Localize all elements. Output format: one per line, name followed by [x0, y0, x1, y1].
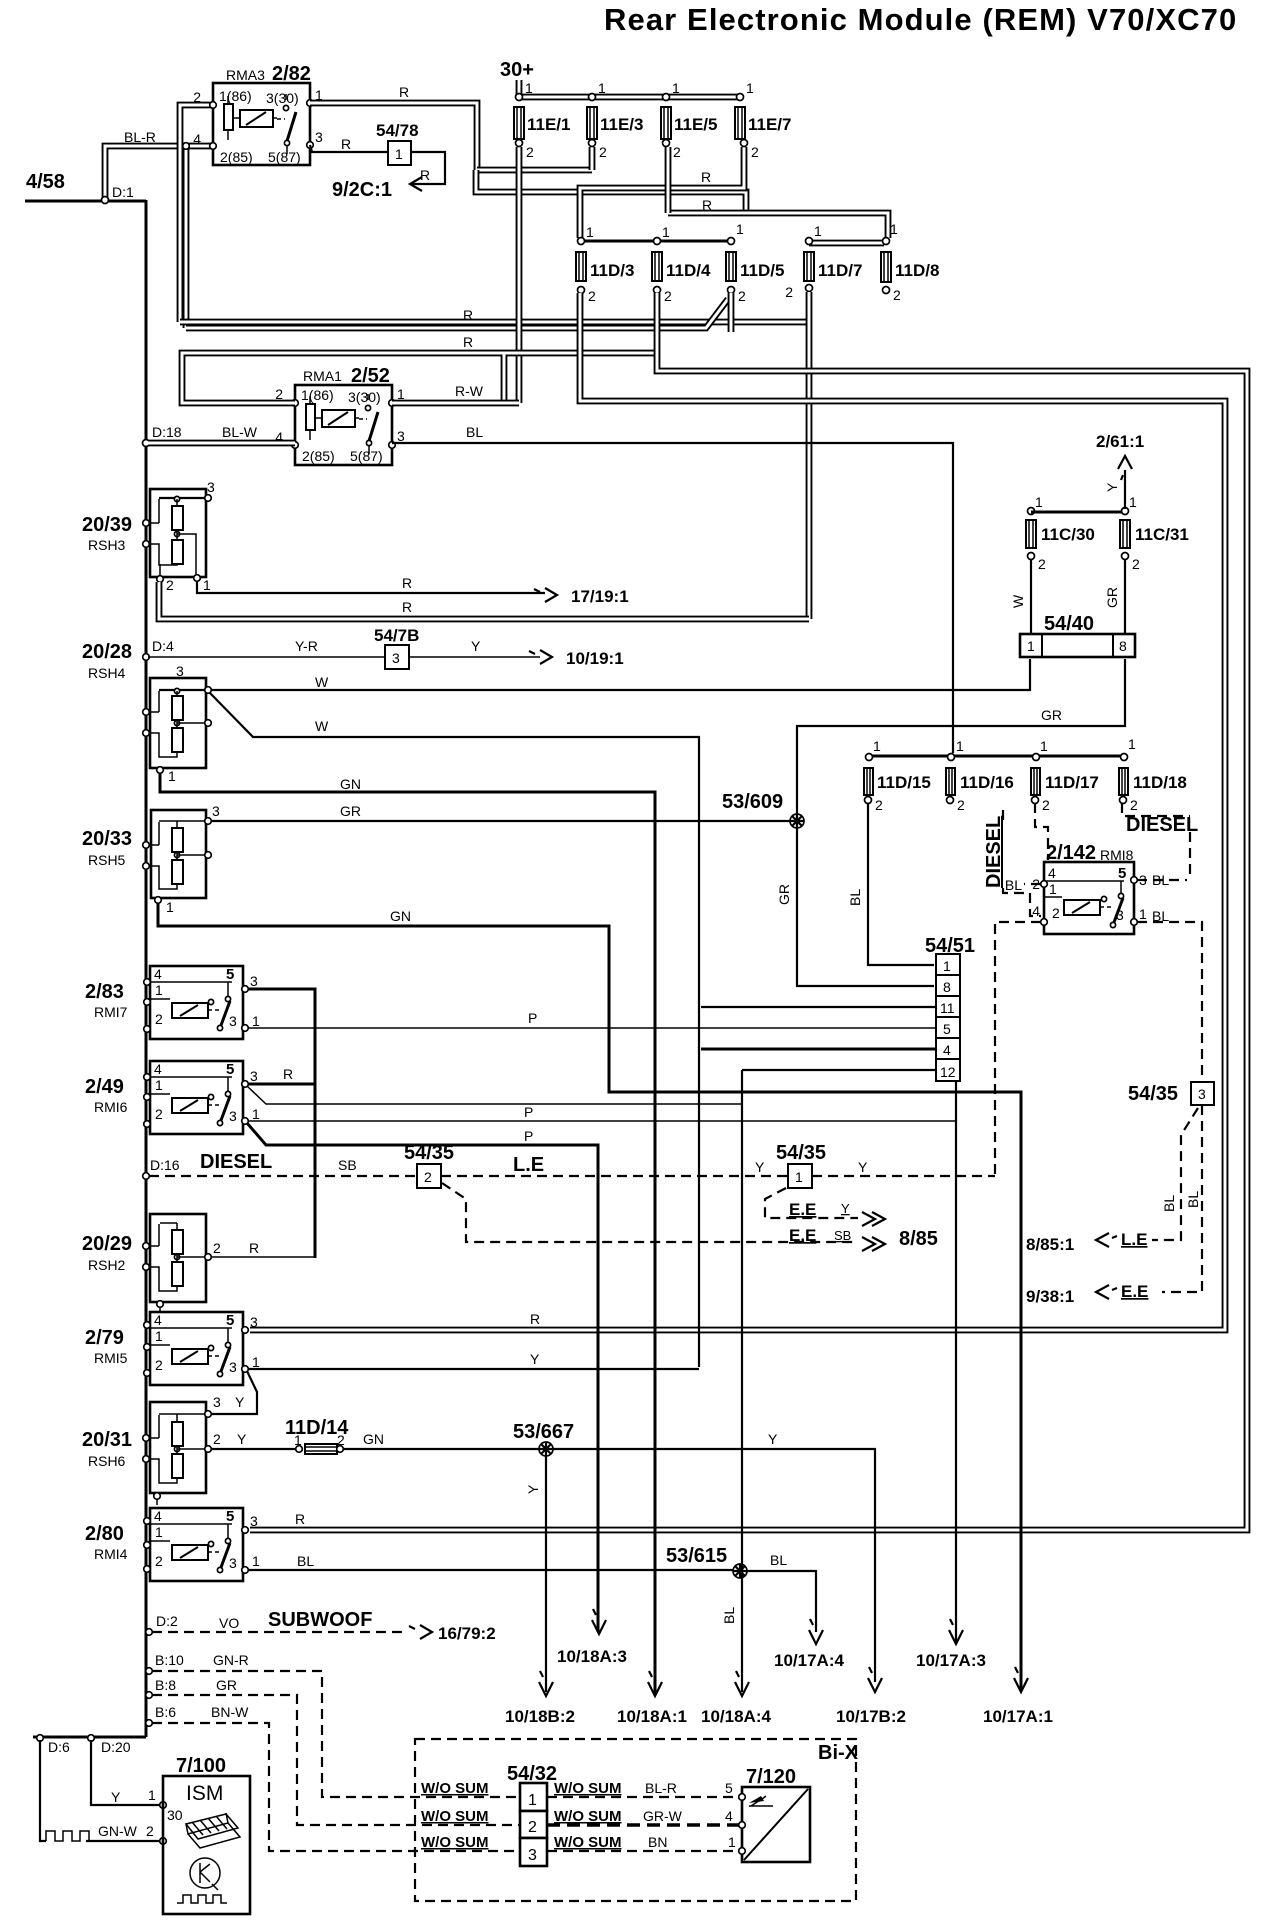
svg-text:5: 5: [226, 966, 234, 983]
svg-text:1: 1: [736, 221, 744, 237]
wire BL-W from D:18 to 2/52 pin 4: [148, 440, 295, 447]
RMI4 left terminals: [144, 1518, 151, 1525]
RMI6 switch: [208, 1094, 213, 1099]
svg-text:11D/16: 11D/16: [960, 773, 1014, 792]
node D:2: [146, 1629, 153, 1636]
svg-text:R: R: [420, 167, 430, 183]
svg-text:DIESEL: DIESEL: [983, 816, 1005, 888]
svg-text:11D/15: 11D/15: [877, 773, 931, 792]
RMI4 coil: [172, 1545, 208, 1560]
svg-text:30: 30: [167, 1807, 183, 1823]
relay 2/52 terminals: [292, 400, 299, 407]
svg-text:R: R: [249, 1240, 259, 1256]
node D:16: [143, 1173, 150, 1180]
wire BL-R from D:1 up to relay 2/82 pin 4: [105, 146, 213, 199]
svg-text:3: 3: [315, 129, 323, 145]
svg-text:11D/4: 11D/4: [666, 261, 711, 280]
RSH3 pin 3 stub: [159, 497, 206, 499]
svg-text:1: 1: [598, 80, 606, 96]
svg-text:RMI8: RMI8: [1100, 847, 1134, 863]
svg-text:B:10: B:10: [155, 1652, 184, 1668]
svg-text:SB: SB: [834, 1228, 851, 1243]
svg-text:2: 2: [155, 1106, 163, 1122]
svg-text:BL-W: BL-W: [222, 424, 258, 440]
svg-text:BL: BL: [770, 1552, 787, 1568]
svg-text:2: 2: [664, 288, 672, 304]
fuse 11D/4: [654, 238, 661, 245]
wire from 54/78 to 9/2C:1 arrow: [411, 152, 445, 184]
RMI8 switch: [1101, 896, 1106, 901]
RSH6 resistor 2: [172, 1454, 183, 1478]
wire 11E pin1 bus: [519, 94, 740, 101]
wire thin from RMI6 pin 3 diagonal to row 1104: [247, 1086, 742, 1104]
svg-text:R: R: [701, 169, 711, 185]
svg-text:Y: Y: [1104, 482, 1120, 492]
svg-text:W/O SUM: W/O SUM: [421, 1780, 489, 1797]
node D:4: [143, 654, 150, 661]
svg-text:RSH3: RSH3: [88, 537, 126, 553]
wire GN from RSH5 pin 1 down right and to 10/17A:1: [158, 903, 1021, 1690]
wire R double from RSH3 pin 2 to 11D/7 pin 2 rail: [159, 582, 809, 619]
svg-text:12: 12: [940, 1064, 956, 1080]
svg-text:11C/31: 11C/31: [1135, 525, 1189, 544]
svg-text:4: 4: [154, 1061, 162, 1077]
RMI7 right terminals: [242, 986, 249, 993]
svg-text:1: 1: [873, 738, 881, 754]
wire Y from RSH6 pin 2 to fuse 11D/14: [211, 1448, 296, 1450]
RMI6 left terminals: [144, 1074, 151, 1081]
svg-text:1(86): 1(86): [301, 387, 334, 403]
svg-text:2: 2: [155, 1553, 163, 1569]
svg-text:4: 4: [154, 1312, 162, 1328]
RSH6 pin 3 terminal: [205, 1411, 212, 1418]
svg-text:2: 2: [599, 144, 607, 160]
wire GR dashed from B:8: [152, 1695, 520, 1825]
wire P thick from RMI6 pin 1 via diagonal down to 10/18A:3: [247, 1123, 598, 1632]
svg-text:20/29: 20/29: [82, 1233, 132, 1255]
svg-text:GR: GR: [1041, 707, 1062, 723]
RMI6 coil: [172, 1098, 208, 1113]
fuse 11E/1: [516, 94, 523, 101]
RSH3 resistor 1: [172, 506, 183, 530]
svg-text:8: 8: [1119, 638, 1127, 654]
ISM K-line icon: [190, 1858, 220, 1888]
RMI8 terminals: [1041, 881, 1048, 888]
dashed BL from RMI8 pin 1 to 54/35 (3): [1137, 922, 1202, 1082]
wire GR from 11C/31 pin 2 to 54/40 pin 8: [1124, 559, 1126, 634]
fuse 11E/5: [663, 94, 670, 101]
svg-text:D:2: D:2: [156, 1613, 178, 1629]
RSH2 resistor 1: [172, 1230, 183, 1254]
svg-text:1(86): 1(86): [219, 88, 252, 104]
svg-text:8/85:1: 8/85:1: [1026, 1235, 1074, 1254]
svg-text:1: 1: [746, 80, 754, 96]
svg-text:9/2C:1: 9/2C:1: [332, 179, 392, 201]
svg-text:54/7B: 54/7B: [374, 626, 419, 645]
svg-text:2/79: 2/79: [85, 1327, 124, 1349]
svg-text:BL-R: BL-R: [645, 1780, 677, 1796]
wire into 54/51 pin 4 from W vertical: [701, 1048, 936, 1051]
dashed BL straight down from 54/35 (3) to 9/38:1 row: [1162, 1105, 1202, 1292]
svg-text:1: 1: [168, 768, 176, 784]
svg-text:54/35: 54/35: [404, 1142, 454, 1164]
junction on BL-R bus: [183, 143, 190, 150]
svg-text:2: 2: [166, 577, 174, 593]
wire 11D/15-18 pin 1 bus: [869, 755, 1124, 758]
svg-text:Y: Y: [111, 1789, 121, 1805]
wire from RMI7 pin 3 to R vertical: [248, 989, 315, 1258]
svg-text:R-W: R-W: [455, 383, 484, 399]
wire R from RSH3 pin 1 to 17/19:1: [197, 581, 545, 593]
module 4/58 boundary bottom line: [33, 1736, 146, 1739]
svg-text:2: 2: [1130, 797, 1138, 813]
wire Y from 2/79 pin 1 up to 54/51 pin 4 vertical: [248, 1368, 699, 1370]
wire BL from 2/80 pin 1 to junction 53/615: [248, 1569, 737, 1571]
dashed BL down-left from 54/35 (3) to 8/85:1 row: [1152, 1108, 1198, 1240]
arrow 10/18A:1: [648, 1671, 662, 1696]
RSH3 pin 2 and pin 1 bottom terminals: [157, 576, 164, 583]
Bi-X dashed enclosure: [415, 1739, 856, 1901]
RMI4 switch: [208, 1541, 213, 1546]
RSH2 mid right terminal pin 2: [205, 1254, 212, 1261]
svg-text:11D/3: 11D/3: [590, 261, 634, 280]
svg-text:4/58: 4/58: [26, 171, 65, 193]
svg-text:2: 2: [155, 1011, 163, 1027]
wire Y diagonal from 2/79 pin 1 down to RSH6 pin 3: [211, 1371, 257, 1414]
node D:1 terminal: [102, 197, 109, 204]
svg-text:3(30): 3(30): [266, 90, 299, 106]
svg-text:2: 2: [146, 1823, 154, 1839]
svg-text:1: 1: [252, 1013, 260, 1029]
RSH4 resistor 1: [172, 696, 183, 720]
svg-text:VO: VO: [219, 1615, 239, 1631]
svg-text:8/85: 8/85: [899, 1228, 938, 1250]
svg-text:RMI4: RMI4: [94, 1546, 128, 1562]
svg-text:RMA1: RMA1: [303, 368, 342, 384]
RSH5 pin 3 terminal: [205, 818, 212, 825]
svg-text:1: 1: [155, 982, 163, 998]
wire GN-R dashed from B:10: [152, 1671, 520, 1797]
arrow 10/19:1: [529, 650, 552, 664]
svg-text:7/120: 7/120: [746, 1766, 796, 1788]
svg-text:RMI5: RMI5: [94, 1350, 128, 1366]
svg-text:3: 3: [229, 1013, 237, 1029]
svg-text:3(30): 3(30): [348, 389, 381, 405]
svg-text:3: 3: [528, 1847, 537, 1864]
svg-text:RMA3: RMA3: [226, 67, 265, 83]
svg-text:SUBWOOF: SUBWOOF: [268, 1609, 372, 1631]
svg-text:L.E: L.E: [513, 1154, 544, 1176]
svg-text:RSH5: RSH5: [88, 852, 126, 868]
svg-text:3: 3: [250, 1513, 258, 1529]
svg-text:1: 1: [166, 899, 174, 915]
RSH2 internal wiring: [146, 1223, 206, 1291]
RSH5 internal wiring: [146, 821, 206, 889]
svg-text:1: 1: [956, 738, 964, 754]
svg-text:GN: GN: [363, 1431, 384, 1447]
wire Y arrow up to 2/61:1: [1124, 470, 1126, 509]
wire BL from 2/52 pin 3 to 11D/16 pin 1: [392, 443, 953, 753]
svg-text:1: 1: [662, 224, 670, 240]
wire P from RMI7 pin 1 to 54/51 pin 5: [248, 1027, 936, 1029]
svg-text:2/49: 2/49: [85, 1076, 124, 1098]
svg-text:8: 8: [943, 979, 951, 995]
fuse 11D/5: [728, 238, 735, 245]
RMI5 switch: [208, 1345, 213, 1350]
wire Y dashed from 54/35 (1) to DIESEL vertical: [812, 1175, 995, 1177]
ISM square wave icon: [177, 1895, 227, 1903]
svg-text:R: R: [463, 334, 473, 350]
svg-text:W: W: [315, 674, 329, 690]
fuse 11C/30: [1028, 508, 1035, 515]
svg-text:9/38:1: 9/38:1: [1026, 1287, 1074, 1306]
wire R from RMI6 pin 3 to R vertical: [248, 1083, 315, 1086]
RSH5 mid right terminal: [205, 852, 212, 859]
arrow 16/79:2: [409, 1625, 432, 1639]
RMI5 coil: [172, 1349, 208, 1364]
RMI4 right terminals: [242, 1527, 249, 1534]
svg-text:P: P: [528, 1010, 537, 1026]
ISM speaker icon: [186, 1813, 240, 1848]
svg-text:4: 4: [943, 1042, 951, 1058]
wire R from 2/82 pin 1: [310, 103, 477, 170]
svg-text:BL: BL: [1185, 1191, 1201, 1208]
dashed DIESEL drop from 11D/18 pin 2: [1122, 803, 1190, 880]
svg-text:10/17B:2: 10/17B:2: [836, 1707, 906, 1726]
svg-text:1: 1: [795, 1169, 803, 1185]
svg-text:D:1: D:1: [112, 184, 134, 200]
svg-text:17/19:1: 17/19:1: [571, 587, 629, 606]
RSH6 mid right terminal pin 2: [205, 1446, 212, 1453]
svg-text:5(87): 5(87): [350, 448, 383, 464]
wire 11D/4 pin 2 down to big ring R: [250, 293, 1247, 1530]
svg-text:2: 2: [738, 288, 746, 304]
relay 2/82 internals: coil: [240, 110, 273, 127]
wire BN dashed row 3 to 7/120 pin 1: [547, 1850, 739, 1852]
wire BN-W dashed from B:6: [152, 1723, 520, 1851]
svg-text:1: 1: [1040, 738, 1048, 754]
svg-text:53/667: 53/667: [513, 1421, 574, 1443]
square wave symbol on GN-W wire: [46, 1831, 91, 1841]
svg-text:11D/18: 11D/18: [1133, 773, 1187, 792]
RSH3 internal wiring: [146, 499, 196, 577]
relay 2/52 internals: switch: [359, 418, 367, 420]
wire BL from 53/615 right then down to 10/17A:4: [747, 1571, 816, 1632]
svg-text:4: 4: [725, 1808, 733, 1824]
svg-text:11E/3: 11E/3: [600, 115, 644, 134]
wire 11E/5 pin2 down to R row: [665, 147, 672, 213]
svg-text:2: 2: [424, 1169, 432, 1185]
node D:20: [88, 1735, 95, 1742]
svg-text:11: 11: [940, 1000, 955, 1016]
svg-text:1: 1: [155, 1328, 163, 1344]
wire W second from RSH4 via diagonal to 54/51 area vertical: [210, 693, 699, 1367]
wire from 2/82 pin 2 left and down to R rail: [180, 105, 213, 322]
svg-text:Y: Y: [235, 1394, 245, 1410]
svg-text:W: W: [1010, 594, 1026, 608]
wire dashed diagonal from 54/35 (1) to E.E row 1: [765, 1188, 858, 1218]
svg-text:2(85): 2(85): [220, 149, 253, 165]
wire from 54/51 pin12 bottom down to 10/17A:3: [955, 1081, 957, 1642]
svg-text:R: R: [341, 136, 351, 152]
svg-text:W: W: [315, 718, 329, 734]
fuse 11D/8: [883, 238, 890, 245]
svg-text:GR: GR: [340, 803, 361, 819]
svg-text:Rear Electronic Module (REM) V: Rear Electronic Module (REM) V70/XC70: [604, 2, 1237, 37]
svg-text:3: 3: [229, 1108, 237, 1124]
svg-text:7/100: 7/100: [176, 1755, 226, 1777]
svg-text:3: 3: [250, 1068, 258, 1084]
wire R continues down to row 192: [476, 170, 746, 213]
wire dashed from RMI8 pin 2 down to 54/35 (1) row: [995, 922, 1041, 1176]
svg-text:P: P: [524, 1128, 533, 1144]
RMI5 right terminals: [242, 1327, 249, 1334]
svg-text:11D/8: 11D/8: [895, 261, 939, 280]
arrow 10/17B:2: [868, 1667, 882, 1692]
svg-text:11E/5: 11E/5: [674, 115, 718, 134]
node B:8: [146, 1692, 153, 1699]
svg-text:3: 3: [176, 663, 184, 679]
wire R from 11E/7 pin 2 to 11D/3 pin 1: [580, 147, 744, 238]
svg-text:2: 2: [213, 1431, 221, 1447]
svg-text:W/O SUM: W/O SUM: [421, 1834, 489, 1851]
svg-text:DIESEL: DIESEL: [1126, 814, 1198, 836]
svg-text:L.E: L.E: [1121, 1230, 1147, 1249]
svg-text:1: 1: [1049, 881, 1057, 897]
svg-text:2/80: 2/80: [85, 1523, 124, 1545]
wire 54/78 row from 2/82 pin 3: [310, 145, 387, 152]
svg-text:3: 3: [250, 1314, 258, 1330]
svg-text:RMI6: RMI6: [94, 1099, 128, 1115]
svg-text:2/83: 2/83: [85, 981, 124, 1003]
wire GN from RSH4 pin 1 down and right: [160, 773, 655, 1695]
svg-text:BL: BL: [297, 1553, 314, 1569]
fuse 11D/17: [1033, 754, 1040, 761]
RSH4 internal wiring: [146, 691, 206, 757]
svg-text:RSH2: RSH2: [88, 1257, 126, 1273]
svg-text:5: 5: [226, 1312, 234, 1329]
node B:10: [146, 1668, 153, 1675]
svg-text:1: 1: [943, 958, 951, 974]
RSH6 bottom stub pin 1: [154, 1493, 161, 1500]
RSH4 resistor 2: [172, 728, 183, 752]
svg-text:2: 2: [528, 1819, 537, 1836]
wire 2/52 pin 2 loop: [182, 353, 657, 403]
svg-text:1: 1: [672, 80, 680, 96]
dashed DIESEL drop from 11D/17 pin 2 to RMI8: [1035, 803, 1048, 860]
svg-text:RSH6: RSH6: [88, 1453, 126, 1469]
svg-text:BL: BL: [466, 424, 483, 440]
svg-text:4: 4: [154, 966, 162, 982]
arrow 10/18A:4: [735, 1671, 749, 1696]
svg-text:2: 2: [588, 288, 596, 304]
relay 2/82 terminals: [210, 102, 217, 109]
wire W from 11C/30 pin 2 to 54/40 pin 1: [1030, 559, 1032, 634]
svg-text:1: 1: [294, 1432, 302, 1448]
wire R rail B to 11D/5 diagonal: [186, 299, 728, 328]
svg-text:2: 2: [213, 1240, 221, 1256]
svg-text:10/18A:3: 10/18A:3: [557, 1647, 627, 1666]
svg-text:1: 1: [1128, 736, 1136, 752]
svg-text:53/609: 53/609: [722, 791, 783, 813]
arrow 10/17A:1: [1014, 1667, 1028, 1692]
svg-text:2: 2: [1042, 797, 1050, 813]
wire Y from D:20 to ISM pin 1: [91, 1740, 161, 1805]
wire GR net from 54/40 pin 8 down left through 53/609 to 54/51 pin 8: [797, 659, 1125, 986]
wire into 54/51 pin 12 from BL vertical: [742, 1069, 936, 1071]
RSH5 resistor 1: [172, 828, 183, 852]
arrow 17/19:1: [534, 588, 557, 602]
svg-text:20/28: 20/28: [82, 641, 132, 663]
svg-text:R: R: [402, 599, 412, 615]
svg-text:BL: BL: [847, 889, 863, 906]
svg-text:30+: 30+: [500, 59, 534, 81]
svg-text:2: 2: [1052, 905, 1060, 921]
svg-text:D:6: D:6: [48, 1739, 70, 1755]
svg-text:2: 2: [193, 89, 201, 105]
svg-text:5: 5: [943, 1021, 951, 1037]
svg-text:10/18A:4: 10/18A:4: [701, 1707, 771, 1726]
wire L.E dashed from 54/35 to 54/35 (1): [441, 1175, 788, 1177]
wire SB dashed from D:16 to 54/35: [149, 1175, 417, 1177]
svg-text:54/78: 54/78: [376, 121, 419, 140]
svg-text:16/79:2: 16/79:2: [438, 1624, 496, 1643]
svg-text:3: 3: [229, 1359, 237, 1375]
svg-text:BL: BL: [1161, 1195, 1177, 1212]
fuse 11E/3: [589, 94, 596, 101]
wire R-W from 2/52 pin 1: [392, 400, 519, 407]
svg-text:ISM: ISM: [186, 1782, 223, 1805]
svg-text:1: 1: [155, 1077, 163, 1093]
wire into 54/51 pin 11 from W vertical: [701, 1006, 936, 1008]
svg-text:10/17A:4: 10/17A:4: [774, 1651, 844, 1670]
RMI8 coil: [1064, 900, 1100, 915]
RSH4 pin 3 stub: [159, 689, 206, 691]
wire 30+ feed: [516, 80, 523, 97]
wire VO dashed SUBWOOF: [152, 1631, 408, 1633]
svg-text:Y: Y: [768, 1431, 778, 1447]
svg-text:R: R: [702, 197, 712, 213]
svg-text:11E/7: 11E/7: [748, 115, 792, 134]
fuse 11D/15: [866, 754, 873, 761]
RMI7 coil: [172, 1003, 208, 1018]
RSH4 pin 1 bottom terminal: [157, 767, 164, 774]
svg-text:GN: GN: [340, 776, 361, 792]
svg-text:3: 3: [229, 1555, 237, 1571]
dashed BL stub left of RMI8 top-left pin: [1024, 883, 1041, 885]
svg-text:E.E: E.E: [789, 1226, 816, 1245]
svg-text:11E/1: 11E/1: [527, 115, 571, 134]
svg-text:GR: GR: [216, 1677, 237, 1693]
svg-text:1: 1: [728, 1834, 736, 1850]
svg-text:GN-R: GN-R: [213, 1652, 249, 1668]
svg-text:2: 2: [673, 144, 681, 160]
svg-text:B:8: B:8: [155, 1677, 176, 1693]
wire Y from 54/7B to 10/19:1: [409, 656, 540, 658]
svg-text:2(85): 2(85): [302, 448, 335, 464]
svg-text:2: 2: [893, 287, 901, 303]
relay 2/82 internals: coil resistor: [224, 104, 233, 130]
wire BL vertical from 54/51 pin 12 through 53/615 to 10/18A:4: [741, 1070, 743, 1692]
svg-text:10/17A:3: 10/17A:3: [916, 1651, 986, 1670]
svg-text:Y: Y: [525, 1484, 541, 1494]
svg-text:2: 2: [526, 144, 534, 160]
wire GR-W bold dashed row 2 to 7/120 pin 4: [547, 1823, 739, 1826]
wire GN from 11D/14 through 53/667 to 10/17B:2 drop: [343, 1449, 875, 1682]
svg-text:Y: Y: [530, 1351, 540, 1367]
svg-text:5: 5: [1118, 865, 1126, 882]
RMI6 right terminals: [242, 1081, 249, 1088]
